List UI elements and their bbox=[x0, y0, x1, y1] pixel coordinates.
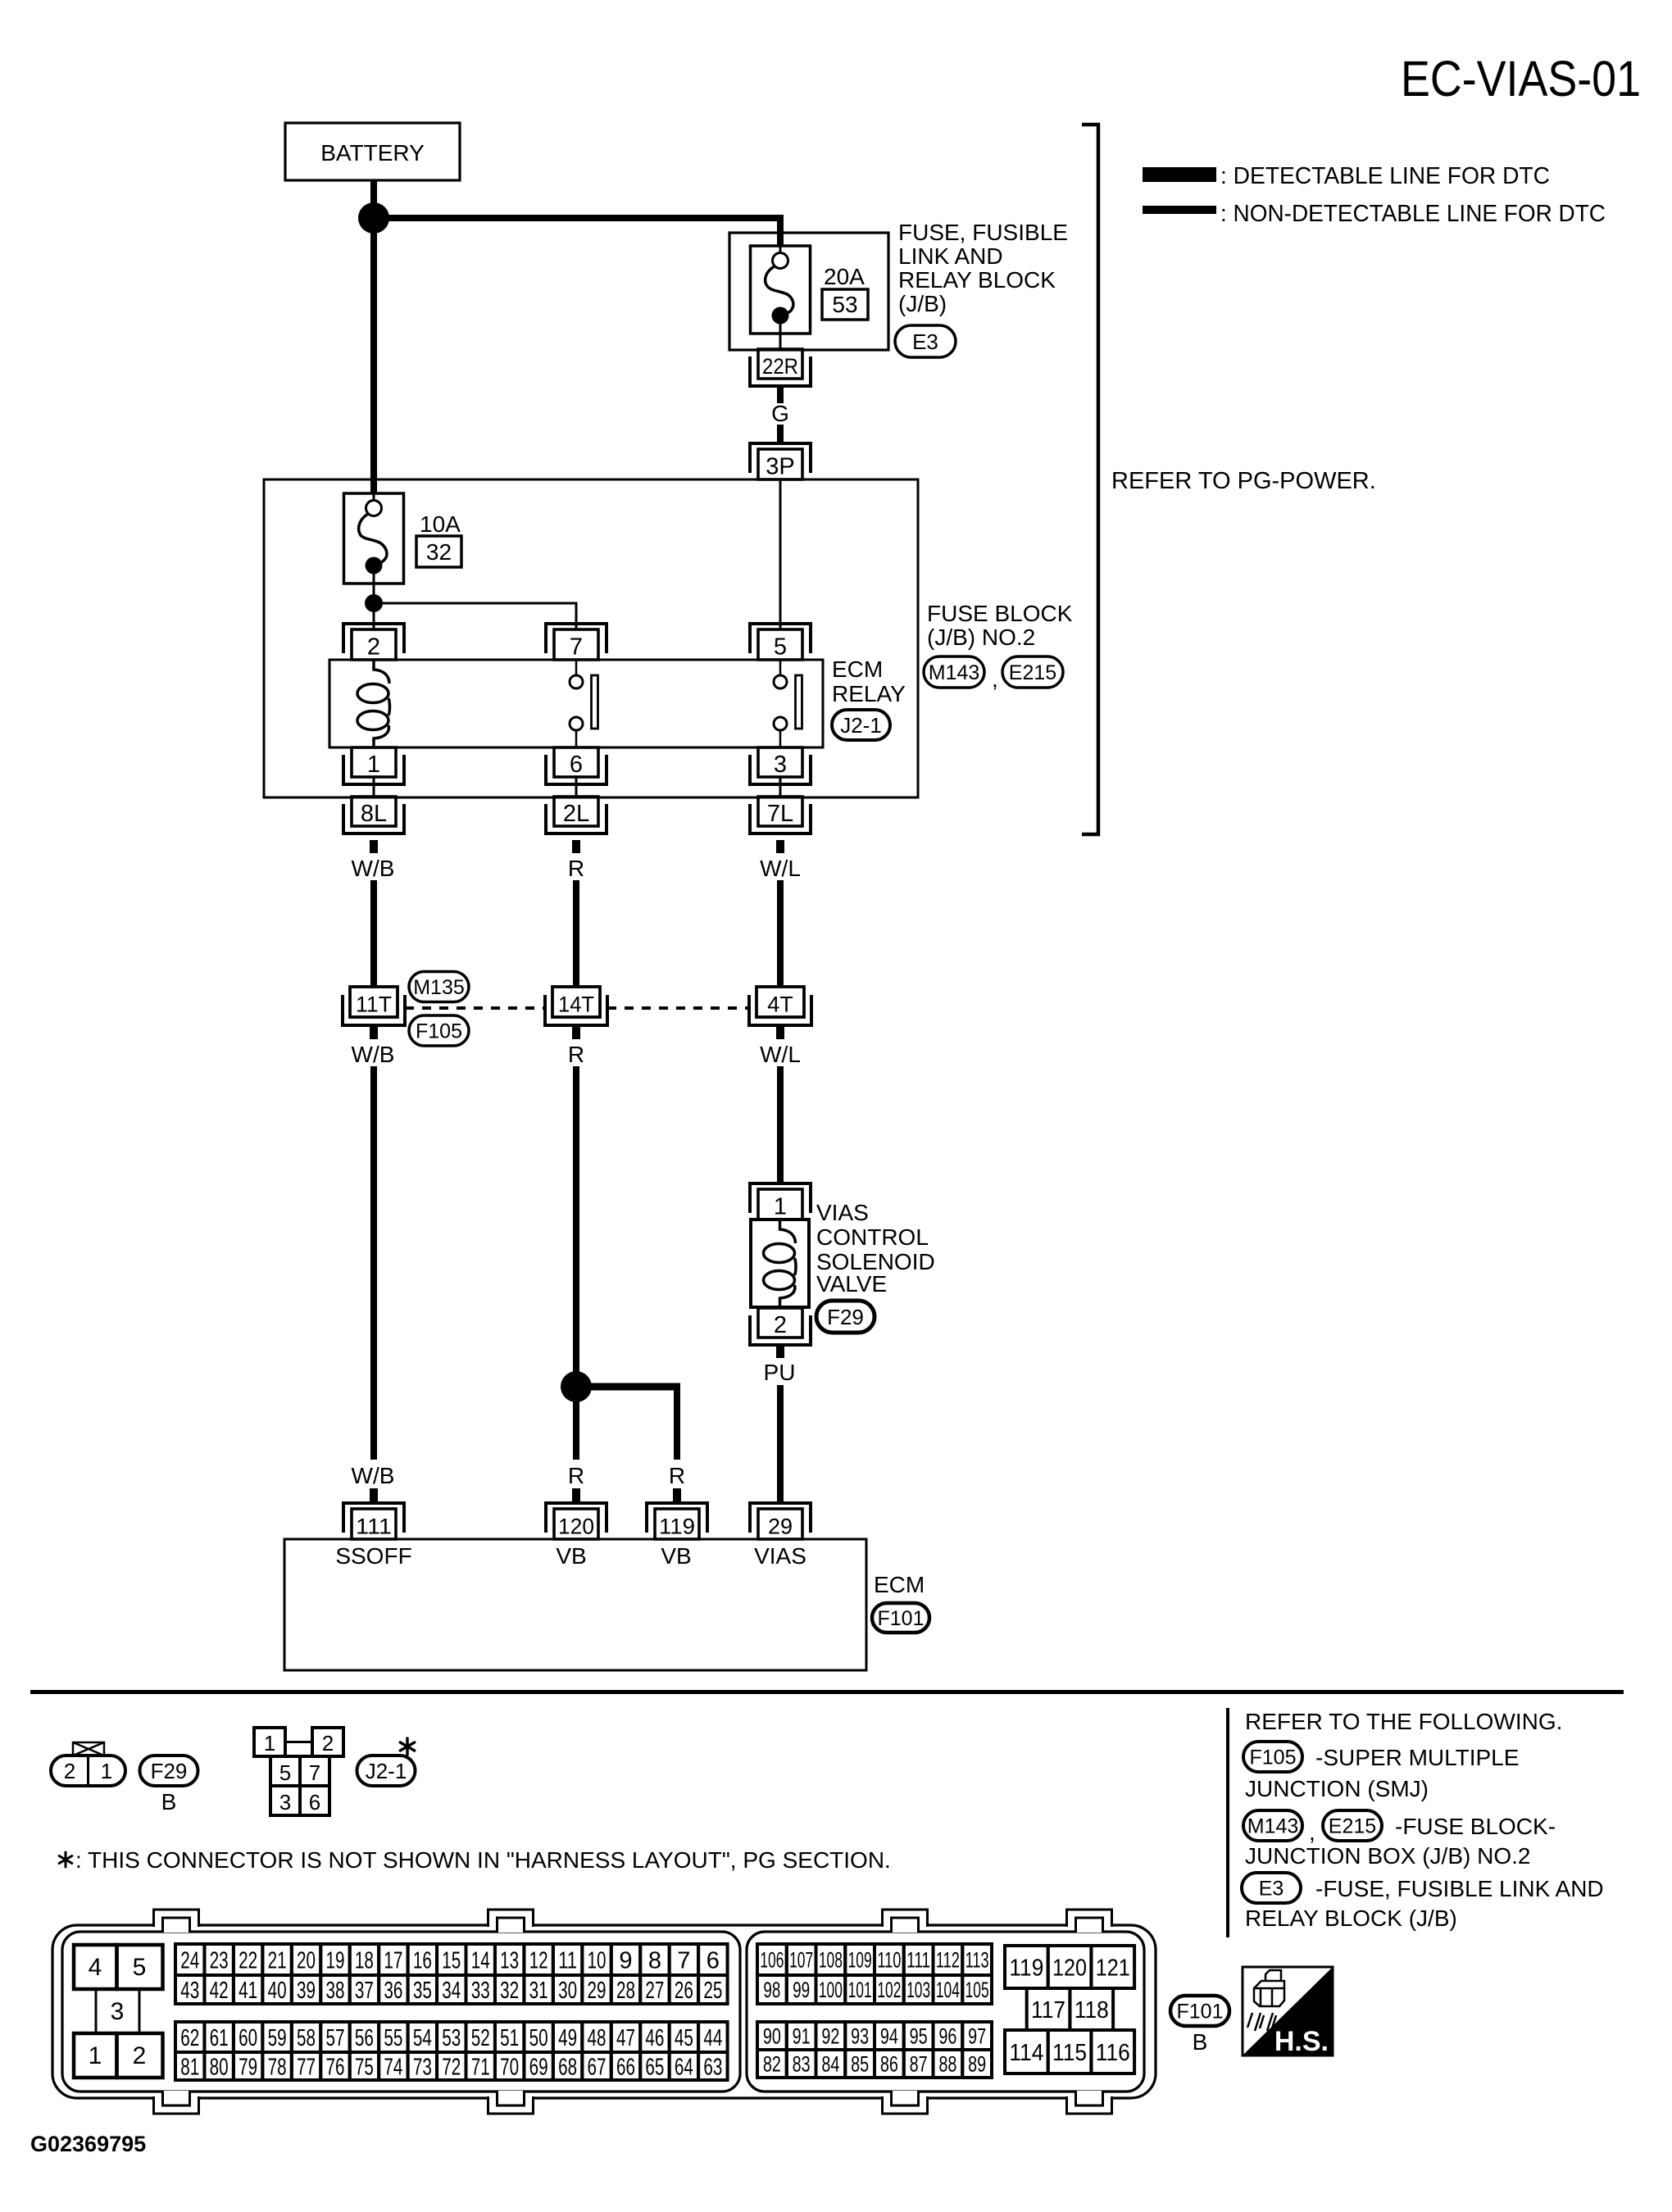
svg-text:87: 87 bbox=[910, 2052, 928, 2077]
svg-text:108: 108 bbox=[819, 1948, 843, 1973]
svg-text:103: 103 bbox=[906, 1978, 930, 2002]
svg-text:22R: 22R bbox=[762, 354, 798, 379]
svg-text:107: 107 bbox=[789, 1948, 813, 1973]
wire color PU bbox=[764, 1360, 796, 1385]
wire: 22R to G label bbox=[777, 386, 784, 403]
svg-text:63: 63 bbox=[703, 2054, 722, 2080]
connector E3 (relay block) bbox=[1242, 1873, 1301, 1903]
svg-text:98: 98 bbox=[763, 1978, 780, 2002]
battery B+ bbox=[285, 123, 460, 180]
svg-text:R: R bbox=[669, 1463, 685, 1488]
svg-text:-FUSE, FUSIBLE LINK AND: -FUSE, FUSIBLE LINK AND bbox=[1315, 1876, 1604, 1901]
svg-text:E3: E3 bbox=[912, 329, 938, 354]
note FUSE FUSIBLE LINK AND RELAY BLOCK bbox=[1245, 1876, 1604, 1931]
svg-text:62: 62 bbox=[180, 2025, 199, 2051]
ECM relay box bbox=[329, 660, 823, 747]
svg-text:FUSE BLOCK: FUSE BLOCK bbox=[927, 601, 1073, 626]
svg-text:RELAY BLOCK (J/B): RELAY BLOCK (J/B) bbox=[1245, 1905, 1457, 1931]
svg-text:11: 11 bbox=[558, 1947, 577, 1974]
svg-text:44: 44 bbox=[703, 2025, 722, 2051]
svg-text:R: R bbox=[568, 1042, 584, 1067]
svg-text:12: 12 bbox=[529, 1947, 548, 1974]
svg-text:111: 111 bbox=[906, 1948, 930, 1973]
svg-text:2: 2 bbox=[774, 1312, 787, 1338]
svg-text:R: R bbox=[568, 856, 584, 881]
comma bbox=[1309, 1819, 1315, 1845]
svg-text:28: 28 bbox=[616, 1978, 635, 2004]
note SUPER MULTIPLE JUNCTION bbox=[1245, 1745, 1519, 1801]
wire: 3P to relay pin 5 bbox=[779, 479, 782, 630]
svg-text:41: 41 bbox=[239, 1978, 257, 2004]
svg-text:91: 91 bbox=[793, 2024, 811, 2049]
svg-text:M143: M143 bbox=[1247, 1815, 1299, 1838]
wire: relay 1 to block edge bbox=[373, 776, 375, 796]
svg-text:M135: M135 bbox=[413, 976, 465, 999]
svg-text:59: 59 bbox=[268, 2025, 287, 2051]
node: R branch junction bbox=[561, 1371, 592, 1402]
svg-text:56: 56 bbox=[355, 2025, 374, 2051]
wire: R down to 14T bbox=[573, 880, 579, 987]
wire: relay 3 to block edge bbox=[779, 776, 782, 796]
svg-text:VALVE: VALVE bbox=[816, 1271, 887, 1297]
svg-text:43: 43 bbox=[180, 1978, 199, 2004]
connector top tab 2 bbox=[488, 1908, 534, 1933]
svg-text:29: 29 bbox=[588, 1978, 607, 2004]
svg-text:106: 106 bbox=[760, 1948, 784, 1973]
connector M143 (fuse block) bbox=[1243, 1810, 1302, 1841]
svg-text:60: 60 bbox=[239, 2025, 257, 2051]
svg-text:CONTROL: CONTROL bbox=[816, 1224, 929, 1250]
wire color R bbox=[568, 856, 584, 881]
svg-text:53: 53 bbox=[832, 292, 857, 317]
svg-text:113: 113 bbox=[965, 1948, 989, 1973]
svg-text:B: B bbox=[161, 1789, 177, 1815]
svg-text:: DETECTABLE LINE FOR DTC: : DETECTABLE LINE FOR DTC bbox=[1220, 163, 1550, 189]
connector M143 bbox=[924, 656, 984, 688]
H.S. hand symbol logo bbox=[1243, 1967, 1333, 2057]
svg-text:81: 81 bbox=[180, 2054, 199, 2080]
svg-text:80: 80 bbox=[210, 2054, 229, 2080]
svg-text:F101: F101 bbox=[1177, 2001, 1224, 2024]
connector F29 bbox=[816, 1301, 875, 1333]
aux connector pins 4 5 3 1 2 bbox=[74, 1945, 163, 2078]
svg-text:75: 75 bbox=[355, 2054, 374, 2080]
svg-text:83: 83 bbox=[793, 2052, 811, 2077]
svg-text:21: 21 bbox=[268, 1947, 287, 1974]
svg-text:F101: F101 bbox=[878, 1607, 925, 1630]
wire: W/L down to VIAS valve bbox=[777, 1066, 784, 1182]
svg-text:2: 2 bbox=[64, 1759, 75, 1783]
svg-text:5: 5 bbox=[133, 1954, 147, 1981]
wire color R (above 120) bbox=[568, 1463, 584, 1488]
wire: relay 6 to block edge bbox=[575, 776, 578, 796]
svg-text:67: 67 bbox=[588, 2054, 607, 2080]
terminal 4T bbox=[749, 987, 811, 1025]
svg-text:104: 104 bbox=[936, 1978, 960, 2002]
wire: W/L down to 4T bbox=[777, 880, 784, 987]
svg-text:71: 71 bbox=[471, 2054, 490, 2080]
svg-text:32: 32 bbox=[426, 539, 452, 565]
connector F105 bbox=[409, 1015, 469, 1046]
relay terminal 3 bbox=[750, 747, 811, 784]
ECM pin grid row 24-6 bbox=[175, 1944, 728, 1975]
svg-text:ECM: ECM bbox=[874, 1572, 925, 1597]
wire: junction to relay pin 7 bbox=[374, 602, 578, 631]
svg-text:RELAY BLOCK: RELAY BLOCK bbox=[898, 267, 1056, 293]
svg-text:6: 6 bbox=[570, 752, 583, 778]
VIAS solenoid coil bbox=[764, 1220, 797, 1306]
svg-text:50: 50 bbox=[529, 2025, 548, 2051]
pin name SSOFF bbox=[335, 1543, 411, 1569]
ECM pin grid row 90-97 bbox=[757, 2022, 992, 2050]
connector E215 (fuse block) bbox=[1323, 1810, 1382, 1841]
svg-text:88: 88 bbox=[938, 2052, 956, 2077]
document number G02369795 bbox=[30, 2132, 146, 2156]
wire stub above 119 bbox=[673, 1488, 681, 1502]
svg-text:,: , bbox=[992, 666, 998, 692]
svg-text:27: 27 bbox=[645, 1978, 664, 2004]
svg-text:95: 95 bbox=[910, 2024, 928, 2049]
wire: W/B long run to ECM bbox=[370, 1066, 377, 1460]
svg-text:W/B: W/B bbox=[352, 1042, 395, 1067]
svg-text:22: 22 bbox=[239, 1947, 257, 1974]
svg-text:61: 61 bbox=[210, 2025, 229, 2051]
svg-text:51: 51 bbox=[500, 2025, 519, 2051]
svg-text:FUSE, FUSIBLE: FUSE, FUSIBLE bbox=[898, 220, 1068, 245]
ECM terminal 119 bbox=[647, 1503, 707, 1539]
ECM pin grid row 62-44 bbox=[175, 2022, 728, 2052]
VIAS valve terminal 1 bbox=[750, 1183, 811, 1220]
terminal 22R bbox=[750, 349, 811, 386]
svg-text:58: 58 bbox=[297, 2025, 316, 2051]
svg-text:1: 1 bbox=[367, 752, 380, 778]
svg-text:W/L: W/L bbox=[760, 856, 801, 881]
svg-text:J2-1: J2-1 bbox=[366, 1759, 407, 1783]
wire: R long run to junction bbox=[573, 1066, 579, 1460]
svg-text:20: 20 bbox=[297, 1947, 316, 1974]
svg-text:W/B: W/B bbox=[352, 856, 395, 881]
svg-text:: NON-DETECTABLE LINE FOR DTC: : NON-DETECTABLE LINE FOR DTC bbox=[1220, 201, 1606, 227]
svg-text:14: 14 bbox=[471, 1947, 490, 1974]
label ECM RELAY bbox=[832, 656, 906, 706]
connector top tab 1 bbox=[153, 1908, 199, 1933]
svg-text:121: 121 bbox=[1096, 1955, 1130, 1981]
svg-text:68: 68 bbox=[558, 2054, 577, 2080]
svg-text:F105: F105 bbox=[1250, 1746, 1297, 1769]
connector E3 bbox=[895, 325, 956, 357]
ECM pin grid large cells 119-121 bbox=[1005, 1946, 1134, 1988]
connector F101 label bbox=[1170, 1996, 1229, 2026]
connector M135 bbox=[409, 972, 469, 1002]
connector F29 pin view (2|1) bbox=[51, 1742, 125, 1786]
pin name VB (119) bbox=[661, 1543, 691, 1569]
svg-text:VIAS: VIAS bbox=[816, 1200, 869, 1225]
relay terminal 6 bbox=[546, 747, 607, 784]
svg-text:14T: 14T bbox=[558, 992, 594, 1017]
wire color W/B bbox=[352, 856, 395, 881]
wire color W/B (below 11T) bbox=[352, 1042, 395, 1067]
svg-text:96: 96 bbox=[938, 2024, 956, 2049]
wire stub below 7L bbox=[776, 840, 784, 853]
SMJ dashed link 14T-4T bbox=[607, 1006, 749, 1010]
wire stub above 120 bbox=[572, 1488, 580, 1502]
svg-text:F29: F29 bbox=[151, 1759, 188, 1783]
ECM connector shell bbox=[52, 1925, 1156, 2098]
svg-text:-FUSE BLOCK-: -FUSE BLOCK- bbox=[1395, 1814, 1556, 1839]
terminal 3P bbox=[750, 443, 811, 480]
svg-text:2: 2 bbox=[322, 1731, 334, 1756]
legend: non-detectable line for DTC bbox=[1143, 201, 1606, 227]
connector F29 label bbox=[140, 1756, 198, 1786]
svg-text:70: 70 bbox=[500, 2054, 519, 2080]
relay contact (pin 5-3) bbox=[774, 661, 802, 747]
svg-text:34: 34 bbox=[442, 1978, 461, 2004]
svg-text:8: 8 bbox=[648, 1947, 661, 1974]
svg-text:120: 120 bbox=[558, 1515, 594, 1539]
svg-text:53: 53 bbox=[442, 2025, 461, 2051]
label B (F101) bbox=[1193, 2029, 1208, 2055]
svg-text:2L: 2L bbox=[563, 801, 589, 827]
connector F105 (SMJ) bbox=[1243, 1742, 1302, 1772]
svg-text:1: 1 bbox=[89, 2042, 102, 2069]
legend: detectable line for DTC bbox=[1143, 163, 1550, 189]
svg-text:VB: VB bbox=[661, 1543, 691, 1569]
svg-text:29: 29 bbox=[768, 1515, 793, 1539]
label VIAS CONTROL SOLENOID VALVE bbox=[816, 1200, 935, 1297]
wire stub above 111 bbox=[370, 1488, 378, 1502]
svg-text:120: 120 bbox=[1052, 1955, 1087, 1981]
svg-text:18: 18 bbox=[355, 1947, 374, 1974]
wire color G bbox=[771, 401, 789, 426]
svg-text:89: 89 bbox=[968, 2052, 986, 2077]
svg-text:48: 48 bbox=[588, 2025, 607, 2051]
svg-text:47: 47 bbox=[616, 2025, 635, 2051]
VIAS control solenoid valve body bbox=[751, 1220, 809, 1307]
svg-text:8L: 8L bbox=[361, 801, 387, 827]
label ECM bbox=[874, 1572, 925, 1597]
svg-text:49: 49 bbox=[558, 2025, 577, 2051]
svg-text:78: 78 bbox=[268, 2054, 287, 2080]
svg-text:,: , bbox=[1309, 1819, 1315, 1845]
connector E215 bbox=[1002, 656, 1063, 688]
VIAS valve terminal 2 bbox=[750, 1308, 811, 1345]
svg-text:112: 112 bbox=[936, 1948, 960, 1973]
ECM terminal 29 bbox=[750, 1503, 811, 1539]
relay terminal 1 bbox=[343, 747, 404, 784]
svg-text:3: 3 bbox=[279, 1790, 291, 1815]
svg-text:16: 16 bbox=[413, 1947, 432, 1974]
label FUSE BLOCK (J/B) NO.2 bbox=[927, 601, 1073, 650]
fuse, fusible link and relay block (J/B) box bbox=[729, 233, 888, 350]
fuse number box 53 bbox=[822, 289, 868, 320]
svg-text:10A: 10A bbox=[420, 511, 461, 537]
svg-text:26: 26 bbox=[675, 1978, 693, 2004]
label B (F29) bbox=[161, 1789, 177, 1815]
svg-text:F105: F105 bbox=[416, 1020, 462, 1043]
svg-text:65: 65 bbox=[645, 2054, 664, 2080]
svg-text:2: 2 bbox=[133, 2042, 147, 2069]
svg-text:24: 24 bbox=[180, 1947, 199, 1974]
fuse number box 32 bbox=[416, 536, 461, 567]
svg-text:BATTERY: BATTERY bbox=[320, 140, 425, 166]
relay terminal 2 bbox=[343, 624, 404, 661]
wire stub below VIAS valve bbox=[776, 1345, 784, 1358]
svg-text:38: 38 bbox=[325, 1978, 344, 2004]
ECM pin grid row 82-89 bbox=[757, 2050, 992, 2078]
svg-text:42: 42 bbox=[210, 1978, 229, 2004]
svg-text:52: 52 bbox=[471, 2025, 490, 2051]
svg-text:4T: 4T bbox=[767, 992, 793, 1017]
wire: PU down to ECM pin 29 bbox=[777, 1385, 784, 1502]
svg-text:76: 76 bbox=[325, 2054, 344, 2080]
svg-text:30: 30 bbox=[558, 1978, 577, 2004]
wire: fuse 20A to 22R bbox=[779, 334, 782, 350]
svg-text:5: 5 bbox=[279, 1760, 291, 1785]
svg-text:23: 23 bbox=[210, 1947, 229, 1974]
label 20A bbox=[824, 264, 865, 289]
wire stub below 4T bbox=[776, 1026, 784, 1039]
pin name VIAS bbox=[754, 1543, 806, 1569]
svg-text:100: 100 bbox=[819, 1978, 843, 2002]
svg-text:7: 7 bbox=[677, 1947, 690, 1974]
svg-text:101: 101 bbox=[848, 1978, 872, 2002]
svg-text:35: 35 bbox=[413, 1978, 432, 2004]
terminal 11T bbox=[343, 987, 405, 1025]
svg-text:54: 54 bbox=[413, 2025, 432, 2051]
svg-text:G: G bbox=[771, 401, 789, 426]
svg-text:97: 97 bbox=[968, 2024, 986, 2049]
wire color R (above 119) bbox=[669, 1463, 685, 1488]
svg-text:115: 115 bbox=[1052, 2040, 1087, 2066]
svg-text:ECM: ECM bbox=[832, 656, 883, 682]
svg-text:1: 1 bbox=[101, 1759, 112, 1783]
node: 10A output junction bbox=[365, 594, 383, 612]
svg-text:64: 64 bbox=[675, 2054, 693, 2080]
wire: battery to junction bbox=[370, 180, 377, 218]
wire: W/B down to 11T bbox=[370, 880, 377, 987]
svg-text:40: 40 bbox=[268, 1978, 287, 2004]
svg-text:M143: M143 bbox=[929, 661, 980, 684]
wire: fuse 10A to junction dot bbox=[373, 584, 375, 630]
wire stub below 2L bbox=[572, 840, 580, 853]
svg-text:5: 5 bbox=[774, 634, 787, 661]
svg-text:93: 93 bbox=[851, 2024, 869, 2049]
fuse block (J/B) no.2 box bbox=[264, 479, 918, 797]
svg-text:114: 114 bbox=[1009, 2040, 1043, 2066]
relay coil bbox=[357, 661, 390, 747]
svg-text:B: B bbox=[1193, 2029, 1208, 2055]
svg-text:7: 7 bbox=[309, 1760, 320, 1785]
separator line bbox=[30, 1690, 1624, 1694]
svg-text:E215: E215 bbox=[1009, 661, 1056, 684]
svg-text:116: 116 bbox=[1096, 2040, 1130, 2066]
svg-text:36: 36 bbox=[384, 1978, 402, 2004]
svg-text:20A: 20A bbox=[824, 264, 865, 289]
terminal 2L bbox=[546, 797, 607, 833]
svg-text:: THIS CONNECTOR IS NOT SHOWN: : THIS CONNECTOR IS NOT SHOWN IN "HARNES… bbox=[75, 1847, 891, 1873]
svg-text:37: 37 bbox=[355, 1978, 374, 2004]
wire: junction to fuse 20A (top feed) bbox=[374, 215, 784, 246]
connector bottom tab 4 bbox=[1066, 2091, 1112, 2115]
ECM pin grid row 106-113 bbox=[757, 1944, 992, 1975]
svg-text:39: 39 bbox=[297, 1978, 316, 2004]
svg-text:7: 7 bbox=[570, 634, 583, 661]
wire: G to 3P bbox=[777, 425, 784, 443]
wire color W/L bbox=[760, 856, 801, 881]
svg-text:15: 15 bbox=[442, 1947, 461, 1974]
svg-text:72: 72 bbox=[442, 2054, 461, 2080]
relay contact (pin 7-6) bbox=[570, 661, 598, 747]
svg-text:9: 9 bbox=[619, 1947, 632, 1974]
connector top tab 3 bbox=[882, 1908, 928, 1933]
svg-text:1: 1 bbox=[264, 1731, 275, 1756]
svg-text:JUNCTION BOX (J/B) NO.2: JUNCTION BOX (J/B) NO.2 bbox=[1245, 1843, 1530, 1869]
fuse 20A 53 bbox=[751, 246, 811, 334]
wire stub below 11T bbox=[370, 1026, 378, 1039]
svg-text:LINK AND: LINK AND bbox=[898, 243, 1003, 269]
wire stub below 8L bbox=[370, 840, 378, 853]
svg-text:33: 33 bbox=[471, 1978, 490, 2004]
svg-text:86: 86 bbox=[880, 2052, 898, 2077]
svg-text:VIAS: VIAS bbox=[754, 1543, 806, 1569]
label FUSE, FUSIBLE LINK AND RELAY BLOCK (J/B) bbox=[898, 220, 1068, 316]
svg-text:119: 119 bbox=[1009, 1955, 1043, 1981]
SMJ dashed link 11T-14T bbox=[405, 1006, 546, 1010]
svg-text:J2-1: J2-1 bbox=[840, 713, 882, 738]
svg-text:(J/B) NO.2: (J/B) NO.2 bbox=[927, 625, 1035, 650]
svg-text:REFER TO THE FOLLOWING.: REFER TO THE FOLLOWING. bbox=[1245, 1709, 1562, 1734]
refer-to list divider bbox=[1226, 1708, 1229, 1937]
svg-text:G02369795: G02369795 bbox=[30, 2132, 146, 2156]
wire color W/B (above 111) bbox=[352, 1463, 395, 1488]
bracket: refer to PG-POWER span bbox=[1082, 125, 1098, 834]
svg-text:-SUPER MULTIPLE: -SUPER MULTIPLE bbox=[1315, 1745, 1519, 1770]
connector top tab 4 bbox=[1066, 1908, 1112, 1933]
ECM pin grid large cells 117-118 bbox=[1027, 1988, 1113, 2030]
ECM terminal 120 bbox=[546, 1503, 607, 1539]
svg-text:32: 32 bbox=[500, 1978, 519, 2004]
relay terminal 7 bbox=[546, 624, 607, 661]
svg-text:11T: 11T bbox=[356, 992, 392, 1017]
svg-text:94: 94 bbox=[880, 2024, 898, 2049]
svg-text:66: 66 bbox=[616, 2054, 635, 2080]
svg-text:13: 13 bbox=[500, 1947, 519, 1974]
svg-text:84: 84 bbox=[821, 2052, 839, 2077]
svg-text:W/L: W/L bbox=[760, 1042, 801, 1067]
relay terminal 5 bbox=[750, 624, 811, 661]
note REFER TO THE FOLLOWING bbox=[1245, 1709, 1562, 1734]
svg-text:7L: 7L bbox=[767, 801, 793, 827]
svg-text:79: 79 bbox=[239, 2054, 257, 2080]
svg-text:R: R bbox=[568, 1463, 584, 1488]
svg-text:SSOFF: SSOFF bbox=[335, 1543, 411, 1569]
terminal 14T bbox=[545, 987, 607, 1025]
svg-text:55: 55 bbox=[384, 2025, 402, 2051]
ECM box bbox=[284, 1539, 866, 1670]
connector bottom tab 1 bbox=[153, 2091, 199, 2115]
connector F101 (ECM) bbox=[872, 1603, 929, 1633]
svg-text:VB: VB bbox=[556, 1543, 586, 1569]
svg-text:109: 109 bbox=[848, 1948, 872, 1973]
svg-text:119: 119 bbox=[659, 1515, 695, 1539]
wire: junction down to fuse 10A bbox=[370, 218, 377, 493]
svg-text:W/B: W/B bbox=[352, 1463, 395, 1488]
svg-text:17: 17 bbox=[384, 1947, 402, 1974]
svg-text:2: 2 bbox=[367, 634, 380, 661]
svg-text:82: 82 bbox=[763, 2052, 781, 2077]
svg-text:6: 6 bbox=[707, 1947, 720, 1974]
connector bottom tab 3 bbox=[882, 2091, 928, 2115]
